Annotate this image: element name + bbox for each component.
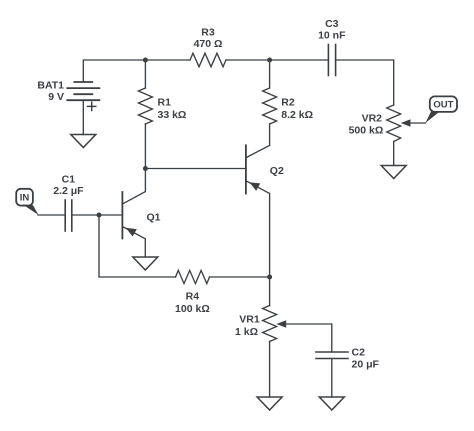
Q2 emitter arrow — [249, 182, 260, 191]
resistor R4 — [176, 270, 210, 283]
wire node R1 to Q2 base — [145, 168, 245, 170]
VR2 wiper arrow — [401, 119, 411, 127]
resistor R1 — [138, 88, 152, 124]
ground (VR2) — [381, 166, 406, 179]
wire top rail left (battery to R3) — [83, 60, 190, 82]
transistor Q2 — [246, 145, 270, 193]
svg-text:VR1: VR1 — [239, 314, 260, 326]
svg-text:OUT: OUT — [433, 100, 453, 111]
OUT port box — [430, 96, 457, 112]
battery plus sign — [88, 102, 96, 110]
svg-text:500 kΩ: 500 kΩ — [349, 125, 384, 137]
wire C1 to Q1 base — [72, 214, 122, 216]
svg-text:R4: R4 — [186, 291, 200, 303]
svg-text:R1: R1 — [158, 97, 172, 109]
svg-text:Q1: Q1 — [147, 212, 161, 224]
wire VR2 wiper to OUT — [410, 122, 426, 124]
wire top rail right (C3 to VR2 top) — [336, 60, 394, 105]
wire R1 top lead — [144, 60, 146, 88]
potentiometer VR1 — [269, 277, 271, 306]
svg-text:100 kΩ: 100 kΩ — [175, 303, 210, 315]
svg-text:C2: C2 — [352, 346, 366, 358]
svg-text:33 kΩ: 33 kΩ — [158, 109, 187, 121]
VR1 wiper arrow — [276, 320, 286, 328]
wire VR2 bottom to ground — [393, 142, 395, 166]
capacitor C1 — [65, 200, 72, 231]
wire IN to C1 — [38, 214, 65, 216]
wire R2 bottom to Q2 collector — [269, 124, 271, 145]
Q1 emitter arrow — [126, 228, 137, 237]
transistor Q1 — [122, 169, 145, 258]
svg-text:IN: IN — [20, 193, 30, 204]
capacitor C3 — [328, 45, 335, 76]
wire top rail middle (R3 to C3) — [226, 59, 328, 61]
wire R2 top lead — [269, 60, 271, 88]
svg-text:Q2: Q2 — [270, 165, 284, 177]
svg-text:C1: C1 — [62, 174, 76, 186]
wire C2 to ground — [331, 359, 333, 398]
node C1/Q1 base junction — [97, 213, 102, 218]
wire battery to ground — [82, 100, 84, 134]
ground (C2) — [319, 397, 344, 410]
svg-text:2.2 μF: 2.2 μF — [53, 185, 84, 197]
svg-text:BAT1: BAT1 — [37, 80, 64, 92]
wire node to R4 — [99, 215, 176, 277]
node R4/VR1 junction — [267, 275, 272, 280]
wire R1 bottom to node — [144, 124, 146, 169]
battery BAT1 — [67, 82, 99, 100]
ground (Q1 emitter) — [133, 257, 158, 270]
wire R4 to node — [210, 276, 270, 278]
svg-text:R2: R2 — [281, 97, 295, 109]
IN port tail — [23, 204, 39, 215]
svg-text:C3: C3 — [325, 18, 339, 30]
node top-left junction — [143, 58, 148, 63]
resistor R3 — [190, 53, 226, 67]
svg-text:8.2 kΩ: 8.2 kΩ — [281, 109, 313, 121]
wire VR1 bottom to ground — [269, 342, 271, 398]
IN port box — [16, 189, 33, 206]
svg-text:20 μF: 20 μF — [352, 358, 380, 370]
potentiometer VR2 — [387, 105, 401, 142]
svg-text:470 Ω: 470 Ω — [194, 38, 223, 50]
wire VR1 wiper to C2 — [286, 324, 332, 352]
wire Q2 emitter down — [269, 194, 271, 278]
svg-text:R3: R3 — [201, 27, 215, 39]
svg-text:VR2: VR2 — [362, 113, 383, 125]
svg-text:10 nF: 10 nF — [318, 29, 346, 41]
OUT port tail — [425, 112, 438, 124]
svg-text:1 kΩ: 1 kΩ — [235, 326, 258, 338]
svg-text:9 V: 9 V — [48, 91, 64, 103]
node junction dots — [97, 58, 273, 280]
node top-right junction — [267, 58, 272, 63]
ground (VR1) — [257, 397, 282, 410]
ground (battery) — [71, 135, 96, 148]
node R1/Q1 collector junction — [143, 166, 148, 171]
resistor R2 — [263, 88, 277, 124]
capacitor C2 — [316, 352, 348, 359]
